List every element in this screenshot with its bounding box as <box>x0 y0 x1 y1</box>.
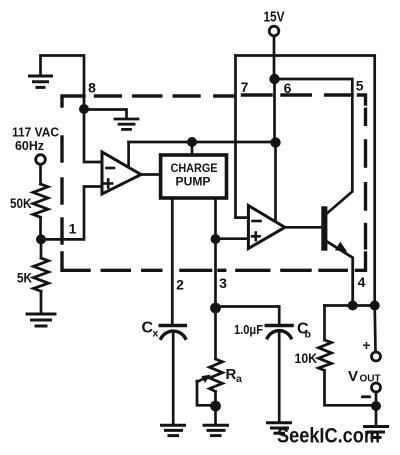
left edge dashes <box>60 137 63 161</box>
wire Cb to ground <box>278 334 281 422</box>
wire Ra bottom to node <box>214 391 217 406</box>
wire node to op-amp + input <box>216 237 249 240</box>
wire 15V rail to transistor collector <box>275 79 353 213</box>
transistor Q1 emitter with arrow <box>327 242 352 306</box>
ground (internal, inside IC box) <box>115 119 138 129</box>
wire 50K to divider node <box>39 217 42 239</box>
node feedback meets 15V branch <box>270 137 280 147</box>
wire comparator non-inverting input down to pin 1 and left to divider node <box>46 187 102 240</box>
wire node to Cb <box>216 307 280 325</box>
wire from top-left ground up and over to pin 8 <box>41 56 85 105</box>
resistor 50K <box>33 184 48 217</box>
svg-text:V: V <box>348 368 358 385</box>
resistor Ra (rheostat) <box>210 359 223 391</box>
wire 15V rail down into IC <box>273 79 276 142</box>
wire charge pump pin 3 down <box>214 198 217 308</box>
wire 5K to ground <box>40 291 43 312</box>
wire 15V terminal down <box>273 36 276 74</box>
svg-text:10K: 10K <box>295 350 318 366</box>
node emitter to output rail <box>348 301 358 311</box>
wire comparator output feedback up <box>127 142 130 166</box>
wire divider node to 5K <box>40 244 43 258</box>
resistor 10K <box>323 306 326 341</box>
node divider junction <box>36 234 46 244</box>
capacitor Cx <box>160 326 185 339</box>
svg-text:5: 5 <box>356 78 364 94</box>
wire pin8 junction down to comparator inverting input <box>84 109 102 162</box>
svg-text:50K: 50K <box>10 195 32 211</box>
wire outer top rail <box>236 56 375 306</box>
svg-text:CHARGE: CHARGE <box>171 161 218 175</box>
svg-text:x: x <box>153 328 159 340</box>
terminal Vout plus <box>372 352 381 361</box>
node Ra bottom junction <box>210 401 221 412</box>
wire node to ground <box>214 406 217 424</box>
wire Cx to ground <box>172 334 175 424</box>
transistor Q1 <box>321 206 327 250</box>
wire charge pump pin 2 down to Cx <box>171 198 174 324</box>
wire op-amp U3 output to transistor base <box>285 226 321 229</box>
ground (below Cb) <box>268 423 291 433</box>
wire feedback line across to 15V rail <box>129 141 276 144</box>
svg-text:60Hz: 60Hz <box>15 138 44 153</box>
charge pump U2 <box>161 155 227 198</box>
svg-text:SeekIC.com: SeekIC.com <box>277 424 380 448</box>
label minus <box>363 395 370 398</box>
node pin 8 junction <box>79 104 89 114</box>
ground (below Cx) <box>162 425 185 435</box>
wiper arrow of Ra <box>197 379 204 382</box>
svg-text:2: 2 <box>176 277 184 293</box>
svg-text:R: R <box>226 366 237 383</box>
op-amp U1 comparator <box>102 152 141 194</box>
wire stub node to charge pump top <box>191 142 194 155</box>
terminal Vout minus <box>372 383 381 392</box>
terminal 117VAC input <box>36 155 46 165</box>
svg-text:4: 4 <box>358 274 366 290</box>
svg-text:7: 7 <box>241 79 249 95</box>
node pin 3 lower junction <box>210 303 221 314</box>
wire pin 7 down to op-amp U3 inverting input <box>236 56 249 218</box>
node output rail right <box>370 301 380 311</box>
wire output node rail <box>325 304 375 307</box>
wire node down to Ra <box>214 308 217 359</box>
svg-text:3: 3 <box>219 275 227 291</box>
svg-text:8: 8 <box>88 80 96 96</box>
wire wiper to bottom node <box>197 381 210 405</box>
svg-text:5K: 5K <box>17 270 32 286</box>
ground (top-left AC common) <box>30 76 52 87</box>
wire to Vout plus terminal <box>373 306 376 352</box>
node pin-3 line to op-amp + input <box>211 234 221 244</box>
capacitor Cb <box>266 326 292 338</box>
node Vout minus junction <box>371 401 381 411</box>
node feedback to charge pump top <box>187 137 197 147</box>
node 15V rail junction <box>269 74 279 84</box>
svg-text:b: b <box>305 329 311 341</box>
wire terminal to 50K <box>39 165 42 185</box>
op-amp U3 <box>248 206 285 249</box>
wire pin8 junction to internal ground <box>84 110 127 118</box>
top edge dashes <box>62 96 84 106</box>
IC boundary dashed box <box>62 95 366 270</box>
svg-text:1.0μF: 1.0μF <box>234 322 263 337</box>
resistor 5K <box>34 258 49 291</box>
wire comparator output to charge pump <box>141 173 161 176</box>
bottom edge dashes <box>102 269 129 272</box>
ground (output) <box>365 427 388 438</box>
right edge dashes <box>364 109 367 124</box>
wire 10K bottom to output minus node <box>325 370 376 405</box>
wire Vout minus to ground <box>375 392 378 425</box>
svg-text:15V: 15V <box>264 9 285 26</box>
wire down to op-amp U3 supply edge <box>274 143 277 222</box>
svg-text:1: 1 <box>69 221 77 237</box>
svg-text:PUMP: PUMP <box>176 175 211 189</box>
svg-text:+: + <box>362 337 370 353</box>
ground (below 5K) <box>27 314 55 326</box>
terminal 15V supply <box>269 26 279 36</box>
svg-text:a: a <box>236 373 242 385</box>
ground (below Ra) <box>204 425 228 435</box>
